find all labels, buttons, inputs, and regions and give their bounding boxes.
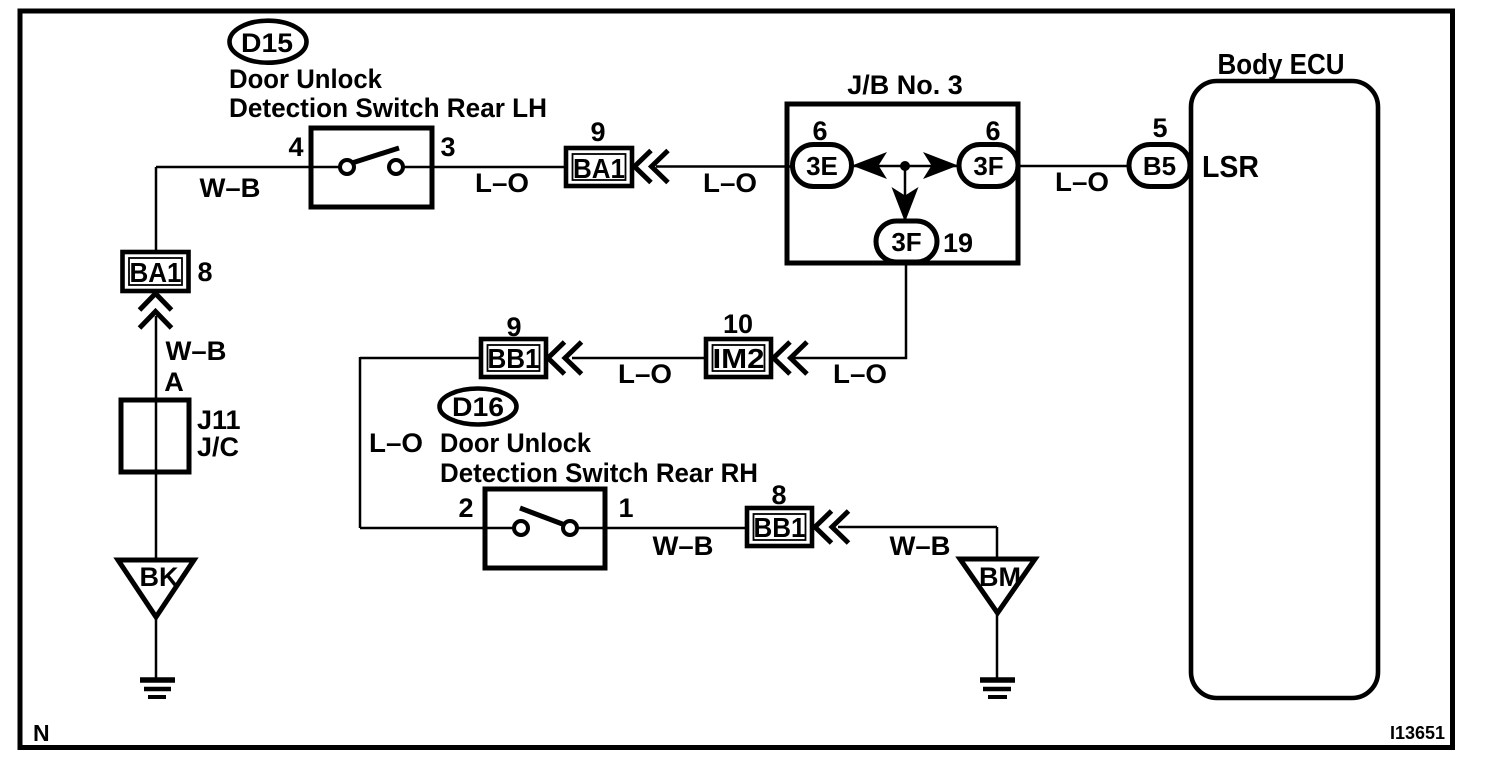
wire BM apex to ground bbox=[996, 612, 999, 679]
wire vertical riser to BA1 connector bbox=[155, 167, 158, 252]
svg-text:W–B: W–B bbox=[166, 336, 227, 366]
oval B5 bbox=[1129, 145, 1190, 187]
switch D16 contact right bbox=[563, 521, 577, 535]
connector BA1 (top) bbox=[566, 148, 632, 186]
svg-text:L–O: L–O bbox=[703, 168, 757, 198]
wire BA1 chevrons to J/B 3E bbox=[656, 165, 795, 168]
J/B No. 3 box bbox=[787, 104, 1018, 263]
switch D15 contact left bbox=[340, 160, 354, 174]
svg-text:Detection Switch Rear LH: Detection Switch Rear LH bbox=[229, 93, 547, 123]
svg-text:L–O: L–O bbox=[475, 168, 529, 198]
svg-text:3E: 3E bbox=[806, 151, 838, 181]
chevrons male connector BA1 bbox=[635, 151, 669, 183]
wire D16 pin1 to BB1 bbox=[576, 527, 747, 530]
svg-text:6: 6 bbox=[812, 116, 827, 146]
svg-text:Door Unlock: Door Unlock bbox=[440, 428, 592, 458]
connector IM2 bbox=[706, 339, 771, 377]
chevrons male connector BA1 left (up) bbox=[140, 294, 172, 329]
connector D15 oval label bbox=[230, 21, 307, 63]
svg-text:W–B: W–B bbox=[890, 531, 951, 561]
svg-text:10: 10 bbox=[723, 309, 753, 339]
svg-text:J/B No. 3: J/B No. 3 bbox=[847, 70, 963, 100]
svg-text:BA1: BA1 bbox=[573, 153, 625, 184]
svg-text:1: 1 bbox=[618, 493, 633, 523]
arrow right dart bbox=[923, 152, 958, 179]
svg-text:J/C: J/C bbox=[197, 432, 239, 462]
ground triangle BK bbox=[118, 560, 194, 617]
ground symbol BK bbox=[140, 677, 175, 683]
wire from bottom 3F down and left to IM2 bbox=[788, 260, 906, 358]
wire BB1 chevrons to BM riser bbox=[838, 526, 997, 529]
switch D16 box bbox=[485, 489, 605, 568]
svg-text:W–B: W–B bbox=[653, 531, 714, 561]
ground symbol BM bbox=[980, 677, 1015, 683]
svg-text:BB1: BB1 bbox=[754, 512, 806, 543]
wire down to BM triangle bbox=[996, 527, 999, 560]
svg-text:N: N bbox=[33, 720, 50, 746]
wire W-B from vertical riser to D15 switch pin 4 bbox=[156, 166, 341, 169]
svg-text:2: 2 bbox=[458, 493, 473, 523]
oval 3F bottom bbox=[876, 221, 937, 262]
ground triangle BM bbox=[960, 559, 1035, 613]
svg-text:D16: D16 bbox=[452, 392, 504, 422]
svg-text:8: 8 bbox=[771, 480, 786, 510]
arrow down dart bbox=[892, 187, 919, 222]
wire D15 pin3 to BA1 connector bbox=[402, 166, 566, 169]
svg-text:BB1: BB1 bbox=[488, 343, 540, 374]
wire riser to D16 pin 2 bbox=[360, 527, 515, 530]
svg-text:A: A bbox=[164, 367, 184, 397]
svg-text:W–B: W–B bbox=[200, 173, 261, 203]
wire BA1 down through J11 to BK triangle bbox=[155, 316, 158, 561]
svg-text:B5: B5 bbox=[1143, 151, 1176, 181]
svg-text:19: 19 bbox=[943, 228, 973, 258]
svg-text:L–O: L–O bbox=[369, 428, 423, 458]
switch D15 box bbox=[311, 128, 432, 207]
svg-text:L–O: L–O bbox=[833, 359, 887, 389]
wire BK apex to ground bbox=[155, 616, 158, 681]
arrow left dart bbox=[852, 152, 887, 179]
svg-text:Body ECU: Body ECU bbox=[1218, 49, 1345, 81]
connector BA1 (left) bbox=[123, 252, 189, 291]
svg-text:I13651: I13651 bbox=[1390, 723, 1445, 743]
svg-text:3F: 3F bbox=[973, 151, 1003, 181]
svg-text:J11: J11 bbox=[197, 405, 241, 435]
connector BB1 (mid) bbox=[481, 339, 546, 377]
svg-text:8: 8 bbox=[197, 257, 212, 287]
oval 3E bbox=[793, 145, 852, 187]
svg-text:9: 9 bbox=[590, 117, 605, 147]
svg-text:BA1: BA1 bbox=[130, 257, 182, 288]
svg-text:6: 6 bbox=[985, 116, 1000, 146]
svg-text:L–O: L–O bbox=[1055, 167, 1109, 197]
connector BB1 (right) bbox=[747, 508, 812, 546]
wire inside J/B between 3E and 3F bbox=[850, 165, 960, 168]
svg-text:Detection Switch Rear RH: Detection Switch Rear RH bbox=[440, 458, 758, 488]
svg-text:4: 4 bbox=[288, 132, 303, 162]
wire BB1 chevrons to IM2 bbox=[572, 357, 706, 360]
chevrons male connector IM2 bbox=[774, 342, 808, 374]
switch D15 lever bbox=[352, 148, 399, 163]
svg-text:D15: D15 bbox=[241, 28, 293, 58]
wire corner to BB1 bbox=[360, 357, 481, 360]
svg-text:L–O: L–O bbox=[618, 359, 672, 389]
switch D16 contact left bbox=[514, 521, 528, 535]
wire vertical L-O riser bbox=[359, 357, 362, 528]
switch D15 contact right bbox=[389, 160, 403, 174]
svg-text:3F: 3F bbox=[891, 227, 921, 257]
connector D16 oval label bbox=[440, 389, 517, 425]
svg-text:BM: BM bbox=[979, 562, 1021, 592]
junction connector J11 bbox=[121, 400, 189, 472]
svg-text:3: 3 bbox=[440, 132, 455, 162]
oval 3F top bbox=[959, 145, 1018, 187]
svg-text:Door Unlock: Door Unlock bbox=[229, 64, 383, 94]
chevrons male connector BB1 mid bbox=[548, 342, 582, 374]
svg-text:IM2: IM2 bbox=[713, 343, 765, 374]
Body ECU box bbox=[1191, 81, 1378, 698]
svg-text:BK: BK bbox=[140, 562, 179, 592]
switch D16 lever bbox=[520, 508, 565, 525]
junction dot bbox=[900, 161, 910, 171]
wire 3F to B5 bbox=[1018, 165, 1130, 168]
svg-text:5: 5 bbox=[1152, 113, 1167, 143]
svg-text:LSR: LSR bbox=[1202, 149, 1259, 184]
wire junction dot down to arrow bbox=[904, 166, 907, 220]
svg-text:9: 9 bbox=[506, 312, 521, 342]
chevrons male connector BB1 right bbox=[815, 511, 849, 543]
